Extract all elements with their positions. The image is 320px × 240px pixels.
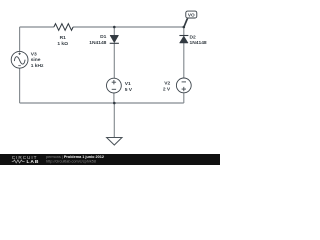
- wire: left vertical segment (V3 down to bottom corner): [19, 68, 21, 103]
- svg-text:1N4148: 1N4148: [89, 40, 106, 46]
- svg-text:V1: V1: [125, 81, 131, 87]
- diode D2 (pointing up): [179, 36, 188, 44]
- svg-text:2 V: 2 V: [163, 87, 171, 93]
- svg-text:D2: D2: [190, 34, 197, 40]
- voltage source V2 (DC, reversed): [176, 78, 191, 93]
- node junction dot on bottom rail: [113, 102, 116, 105]
- footer CircuitLab logo: resistor zigzag: [12, 160, 25, 163]
- wire: D1 branch vertical (node to D1 anode): [113, 27, 115, 35]
- svg-text:1 kHz: 1 kHz: [31, 63, 44, 69]
- node VO flag box: [186, 11, 197, 18]
- node VO flag pin (diagonal): [183, 18, 188, 27]
- voltage source V1 (DC): [107, 78, 122, 93]
- wire: D2 anode down to V2 top: [183, 43, 185, 78]
- wire: V2 bottom to bottom rail corner: [183, 93, 185, 103]
- wire: top horizontal segment from R1 to node at D1/D2: [73, 26, 184, 28]
- wire: top-left horizontal segment from corner to R1: [20, 26, 54, 28]
- diode D1 (pointing down): [110, 35, 119, 43]
- wire: ground stem: [113, 103, 115, 138]
- svg-text:VO: VO: [188, 13, 195, 18]
- svg-text:5 V: 5 V: [125, 87, 133, 93]
- svg-text:V2: V2: [164, 81, 170, 87]
- svg-text:1N4148: 1N4148: [190, 40, 207, 46]
- node junction dot at top of D1 branch: [113, 26, 116, 29]
- voltage source V3 (sine): [11, 51, 28, 68]
- ground symbol: [107, 138, 122, 146]
- wire: V1 bottom to bottom rail: [113, 93, 115, 103]
- svg-text:LAB: LAB: [27, 159, 40, 165]
- svg-text:V3: V3: [31, 51, 37, 57]
- footer bar: [0, 154, 220, 165]
- svg-text:1 kΩ: 1 kΩ: [57, 41, 68, 47]
- wire: D1 cathode down to V1 top: [113, 43, 115, 78]
- svg-text:R1: R1: [60, 35, 67, 41]
- resistor R1 zigzag: [54, 24, 73, 31]
- wire: D2 branch vertical (top corner to D2 cathode): [183, 27, 185, 36]
- svg-text:sine: sine: [31, 57, 41, 63]
- svg-text:D1: D1: [100, 34, 107, 40]
- wire: bottom horizontal rail: [20, 102, 184, 104]
- svg-text:http://circuitlab.com/c/cph/k5: http://circuitlab.com/c/cph/k58: [46, 159, 96, 163]
- wire: left vertical segment (top corner down to V3): [19, 27, 21, 51]
- node junction dot at D2 top corner: [183, 26, 186, 29]
